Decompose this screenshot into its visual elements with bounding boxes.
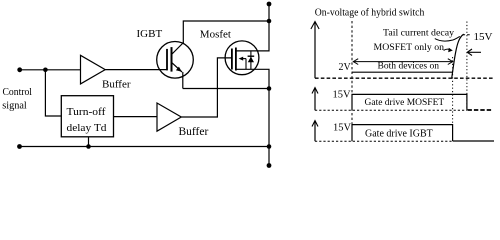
node: return wire junction dot at delay box — [86, 144, 91, 149]
svg-text:Turn-off: Turn-off — [67, 106, 106, 118]
svg-text:Mosfet: Mosfet — [200, 29, 231, 41]
svg-text:Buffer: Buffer — [179, 126, 209, 138]
MOSFET drain line to rail corner — [236, 21, 269, 51]
svg-text:Control: Control — [3, 87, 33, 98]
wire: delay box bottom stub to return rail — [88, 137, 90, 147]
node: emitter/source junction dot on rail — [267, 86, 272, 91]
IGBT gate bar — [166, 49, 168, 71]
node: bottom return junction dot — [267, 144, 272, 149]
MOSFET gate bar — [231, 49, 233, 70]
waveform: gate drive MOSFET pulse — [352, 94, 467, 110]
dashed zero line of on-voltage plot — [315, 77, 493, 79]
MOSFET source arrow (body arrow) — [241, 58, 246, 60]
node: bottom rail terminal dot — [267, 163, 272, 168]
wire: IGBT emitter lead down — [182, 72, 184, 89]
IGBT body bar — [171, 47, 173, 72]
wire: IGBT collector lead to top rail — [183, 21, 269, 43]
dashed guide: turn-on instant x=352 — [351, 21, 353, 125]
transistor Q2 MOSFET circle — [225, 41, 259, 75]
svg-text:Both devices on: Both devices on — [378, 60, 440, 71]
MOSFET body diode vertical — [250, 51, 252, 69]
dashed zero line gate MOSFET — [315, 109, 467, 111]
curve: tail current decay voltage rise — [452, 34, 464, 77]
dashed zero line gate IGBT — [315, 140, 453, 142]
axis: gate drive MOSFET axis with arrow — [314, 88, 316, 110]
buffer U2 (triangle) — [157, 103, 181, 131]
wire: junction A down to delay box input — [45, 70, 61, 116]
MOSFET body diode triangle — [248, 57, 254, 63]
waveform: gate drive IGBT pulse — [352, 125, 453, 142]
node: collector junction dot on rail — [267, 19, 272, 24]
node: top rail terminal dot — [267, 2, 272, 7]
IGBT emitter arrowhead — [176, 67, 182, 72]
dash-dot: 15V level segment near curve top — [463, 34, 472, 36]
svg-text:signal: signal — [2, 101, 27, 112]
svg-text:On-voltage of hybrid switch: On-voltage of hybrid switch — [315, 6, 425, 18]
arrow: left-pointing at MOSFET turn-off — [468, 51, 481, 53]
wire: lower rail segment — [268, 89, 270, 166]
IGBT collector diagonal — [172, 43, 183, 54]
svg-text:Buffer: Buffer — [102, 78, 131, 90]
wire: buffer U1 output to IGBT gate — [105, 69, 166, 71]
node A junction dot — [43, 68, 48, 73]
wire: control input to junction A — [20, 69, 46, 71]
dotted guide: IGBT turn-off instant x=452.6 — [452, 57, 454, 125]
arrow: MOSFET only on pointer — [444, 49, 450, 50]
wire: delay box output to buffer U2 input — [114, 116, 158, 118]
transistor Q1 IGBT circle — [157, 42, 194, 79]
wire: top rail segment — [268, 4, 270, 21]
svg-text:IGBT: IGBT — [137, 28, 163, 40]
MOSFET source line to rail — [236, 69, 269, 88]
axis: on-voltage vertical axis with arrow — [314, 22, 316, 78]
svg-text:Gate drive MOSFET: Gate drive MOSFET — [365, 98, 445, 108]
svg-text:15V: 15V — [333, 122, 352, 133]
delay block: Turn-off delay Td — [61, 96, 113, 137]
wire: buffer U2 output up to MOSFET gate — [181, 58, 231, 117]
svg-text:Gate drive IGBT: Gate drive IGBT — [365, 128, 433, 139]
svg-text:delay Td: delay Td — [67, 122, 108, 134]
svg-text:15V: 15V — [474, 31, 493, 43]
MOSFET body diode cathode bar — [248, 55, 255, 57]
buffer U1 (triangle) — [81, 55, 106, 84]
node: control input terminal dot — [17, 67, 22, 72]
svg-text:Tail current decay: Tail current decay — [383, 27, 454, 38]
on-voltage 2V level line — [352, 71, 453, 73]
axis: gate drive IGBT axis with arrow — [314, 121, 316, 141]
svg-text:MOSFET only on: MOSFET only on — [374, 43, 445, 53]
wire: junction A to buffer U1 input — [45, 69, 80, 71]
thick dashed off-level after MOSFET turn-off — [468, 109, 494, 111]
dotted guide: MOSFET turn-off instant x=466.9 — [466, 22, 468, 111]
node: return input terminal dot — [17, 144, 22, 149]
MOSFET channel bar — [235, 48, 237, 71]
dimension arrow: Both devices on — [353, 61, 453, 63]
IGBT emitter diagonal — [172, 63, 182, 72]
solid off-level after IGBT turn-off — [453, 140, 494, 142]
wire: common emitter/source wire to rail — [183, 88, 269, 90]
wire: bottom return rail — [20, 146, 270, 148]
svg-text:15V: 15V — [333, 89, 352, 100]
svg-text:2V: 2V — [339, 62, 352, 73]
leader line from decay label to curve — [435, 36, 460, 41]
